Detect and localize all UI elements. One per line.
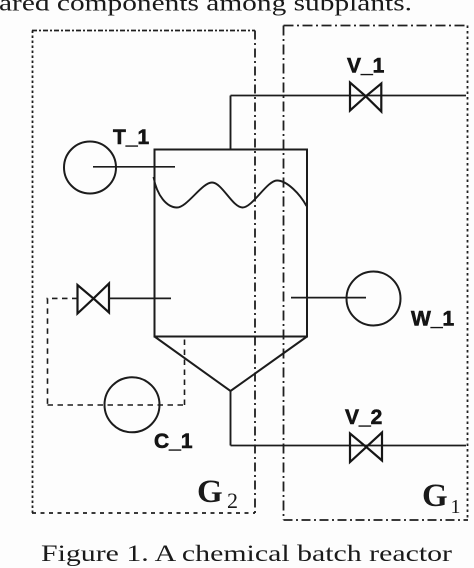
valve V2 xyxy=(350,433,382,463)
tank conical bottom xyxy=(155,337,308,392)
dashed control signal loop xyxy=(47,298,185,405)
control valve (left, actuated) xyxy=(78,284,110,314)
sensor W1 circle xyxy=(347,272,401,326)
temperature sensor T1 circle xyxy=(64,142,116,194)
svg-text:V_1: V_1 xyxy=(347,55,385,78)
svg-text:W_1: W_1 xyxy=(411,308,455,331)
liquid surface wave xyxy=(154,177,307,208)
controller C1 circle xyxy=(105,377,160,432)
bottom outlet pipe to V_2 xyxy=(231,445,467,447)
svg-text:V_2: V_2 xyxy=(345,406,382,429)
top outlet pipe to V_1 xyxy=(231,95,467,97)
riser pipe from tank top xyxy=(230,96,232,150)
subplant box G2 (dashed) xyxy=(32,31,255,514)
svg-text:C_1: C_1 xyxy=(154,430,193,453)
reactor tank body xyxy=(155,150,308,337)
valve V1 xyxy=(350,83,381,112)
subplant box G1 (dash-dot) xyxy=(284,26,469,521)
svg-text:ared components among subplant: ared components among subplants. xyxy=(0,0,412,17)
drain pipe from cone apex xyxy=(230,391,232,446)
pipe from control valve into tank xyxy=(109,297,171,299)
W1 stem line into tank xyxy=(291,297,366,299)
svg-text:T_1: T_1 xyxy=(113,126,150,149)
svg-text:1: 1 xyxy=(451,496,461,518)
T1 stem line into tank xyxy=(93,166,175,168)
svg-text:G: G xyxy=(422,478,448,514)
svg-text:Figure 1. A chemical batch rea: Figure 1. A chemical batch reactor xyxy=(41,541,452,567)
svg-text:2: 2 xyxy=(227,488,238,513)
svg-text:G: G xyxy=(197,474,223,510)
